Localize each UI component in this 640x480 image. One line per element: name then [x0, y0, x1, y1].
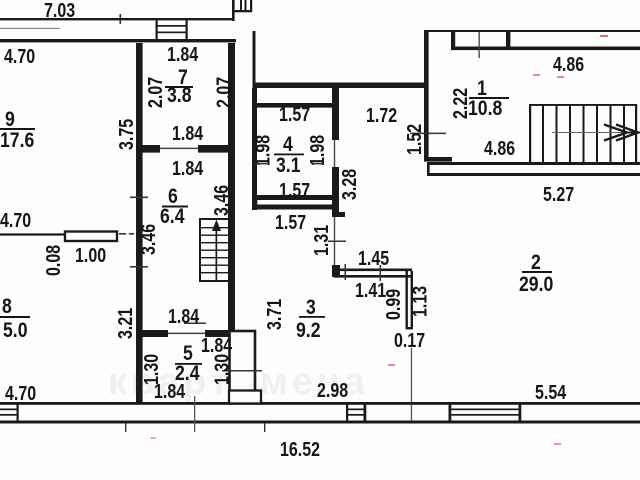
- wire: room1 north wall divider: [506, 32, 510, 47]
- wire: tick across room5 right wall: [222, 370, 262, 372]
- wire: rooms 7/6/5 column left wall: [136, 43, 143, 403]
- wire: stairwell west wall jog: [424, 157, 452, 162]
- svg-text:0.17: 0.17: [394, 328, 425, 351]
- wire: recess horizontal wall: [253, 83, 429, 89]
- wire: room1 north wall inner line: [451, 47, 640, 51]
- svg-text:3.21: 3.21: [113, 308, 136, 339]
- svg-text:2.07: 2.07: [212, 77, 235, 108]
- wall block right of room5: [230, 331, 256, 402]
- svg-text:1.31: 1.31: [309, 225, 332, 256]
- svg-text:7.03: 7.03: [44, 0, 75, 21]
- wire: 7.03 dimension tick: [120, 14, 122, 24]
- svg-text:2.98: 2.98: [317, 378, 348, 401]
- wire: tick line under 1.84: [184, 323, 206, 325]
- svg-text:4.70: 4.70: [0, 208, 31, 231]
- svg-text:1.57: 1.57: [279, 102, 310, 125]
- svg-text:5.54: 5.54: [535, 380, 567, 403]
- wire: tick below wall x264: [264, 423, 265, 432]
- svg-text:10.8: 10.8: [468, 97, 503, 121]
- svg-text:4.86: 4.86: [484, 136, 515, 159]
- wire: faint dimension line left: [0, 28, 60, 29]
- wire: extension line at x195: [194, 396, 195, 432]
- svg-text:1.84: 1.84: [172, 156, 204, 179]
- vent shaft protrusion: [232, 0, 252, 21]
- svg-text:1.98: 1.98: [305, 135, 328, 166]
- wire: room4 right wall middle: [332, 167, 339, 217]
- wire: rooms 7/6 column right wall: [228, 43, 235, 331]
- wire: tick right of 1.98: [312, 163, 324, 164]
- pier bump above south wall: [229, 391, 261, 404]
- wire: wall between room7 and room6: [136, 145, 235, 153]
- svg-text:9.2: 9.2: [296, 319, 321, 343]
- svg-text:3.46: 3.46: [136, 224, 159, 255]
- svg-text:8: 8: [2, 295, 12, 319]
- svg-text:5.0: 5.0: [3, 319, 28, 343]
- wire: door line room4: [334, 140, 335, 167]
- svg-text:3.28: 3.28: [337, 169, 360, 200]
- svg-text:0.08: 0.08: [41, 245, 64, 276]
- wire: room4 left wall: [252, 88, 257, 210]
- wire: stub on room4 right wall: [333, 212, 345, 217]
- door dashes at 1.00 wall: [119, 233, 126, 235]
- wire: extension line below stub: [411, 348, 412, 423]
- svg-text:4.86: 4.86: [553, 52, 584, 75]
- wire: tick on column wall upper: [130, 197, 148, 199]
- svg-text:1.00: 1.00: [75, 243, 106, 266]
- red scan artifacts: [600, 35, 608, 37]
- wire: room4 bottom wall double: [255, 195, 339, 210]
- staircase (main): [529, 104, 637, 162]
- svg-text:1.84: 1.84: [201, 333, 233, 356]
- window W4 bottom right: [449, 402, 522, 424]
- svg-text:1.84: 1.84: [154, 379, 186, 402]
- wire: landing dimension tick: [410, 133, 446, 135]
- wire: tick for 1.31: [328, 241, 346, 243]
- svg-text:17.6: 17.6: [0, 129, 35, 153]
- wire: room1 north wall left cap: [451, 32, 455, 47]
- svg-text:1.84: 1.84: [167, 42, 199, 65]
- wire: north outer wall bottom line: [0, 39, 236, 42]
- svg-text:2.07: 2.07: [143, 77, 166, 108]
- svg-text:1.84: 1.84: [172, 121, 204, 144]
- svg-text:1.57: 1.57: [279, 178, 310, 201]
- wall 1.00 bar between room9 and room8: [65, 232, 117, 242]
- wire: north outer wall top line: [0, 18, 233, 20]
- svg-text:4.70: 4.70: [5, 381, 36, 404]
- svg-text:3.75: 3.75: [114, 119, 137, 150]
- wire: wall between room9 and room8 thin part: [0, 233, 65, 235]
- svg-text:1.52: 1.52: [402, 124, 425, 155]
- wire: thin extension line top right: [479, 32, 480, 58]
- small staircase in room6: [200, 219, 229, 281]
- wire: tick left of 1.98: [255, 163, 267, 164]
- south wall band: [0, 402, 640, 424]
- wire: room1 north wall thin top line: [424, 30, 640, 32]
- svg-text:1.30: 1.30: [210, 354, 233, 385]
- svg-text:16.52: 16.52: [280, 437, 320, 460]
- svg-text:3.1: 3.1: [276, 154, 301, 178]
- svg-text:1.98: 1.98: [251, 135, 274, 166]
- svg-text:29.0: 29.0: [519, 273, 553, 297]
- wire: stairwell south wall: [427, 162, 640, 176]
- L wall between corridor and room2: [332, 265, 413, 329]
- svg-text:4.70: 4.70: [4, 44, 35, 67]
- wire: stairwell west wall: [424, 30, 429, 159]
- svg-text:2: 2: [531, 251, 541, 275]
- wire: door line lobby: [334, 217, 335, 265]
- wire: tick below wall x125: [125, 423, 126, 432]
- svg-text:6.4: 6.4: [160, 205, 185, 229]
- wire: room4 right wall upper: [332, 88, 339, 140]
- svg-text:3.8: 3.8: [167, 84, 192, 108]
- svg-text:3.46: 3.46: [209, 185, 232, 216]
- wire: tick at 1.45 right end: [380, 265, 382, 281]
- svg-text:0.99: 0.99: [381, 289, 404, 320]
- svg-text:3: 3: [306, 296, 316, 320]
- wire: tick for 1.45: [345, 264, 347, 280]
- wire: recess vertical wall: [253, 31, 256, 88]
- window W1 in north wall: [156, 18, 188, 42]
- wire: wall between room6 and room5: [136, 330, 237, 337]
- staircase arrow: [552, 125, 640, 141]
- svg-text:1.57: 1.57: [275, 210, 306, 233]
- svg-text:5.27: 5.27: [543, 182, 574, 205]
- wire: room4 top wall: [252, 103, 339, 108]
- svg-text:3.71: 3.71: [262, 299, 285, 330]
- window W2 bottom left: [0, 402, 19, 424]
- svg-text:1.72: 1.72: [366, 103, 397, 126]
- wire: tick on column wall lower: [130, 266, 148, 268]
- svg-text:1.13: 1.13: [408, 286, 431, 317]
- window W3 bottom middle: [346, 402, 366, 424]
- svg-text:1.45: 1.45: [358, 246, 389, 269]
